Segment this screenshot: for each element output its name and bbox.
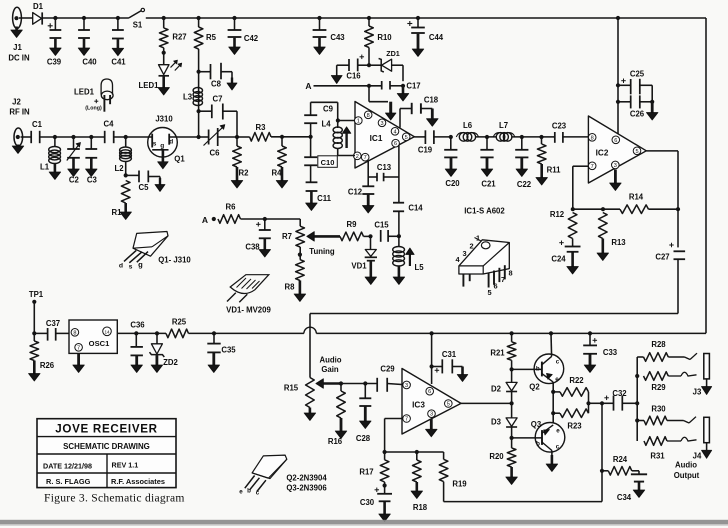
wire IC2 output (646, 150, 678, 152)
svg-text:C31: C31 (442, 350, 457, 359)
svg-text:e: e (239, 489, 243, 496)
pin 14 OSC1 (103, 327, 112, 336)
svg-text:(Long): (Long) (85, 106, 102, 112)
wire IC3 pin 6 supply (430, 331, 434, 335)
svg-text:C20: C20 (445, 179, 460, 188)
capacitor C10 (310, 137, 312, 157)
svg-text:L7: L7 (499, 121, 508, 130)
connector J3 headphone jack (704, 354, 710, 379)
capacitor C9 (309, 135, 313, 139)
capacitor C32 (602, 402, 614, 404)
svg-text:e: e (555, 376, 559, 383)
wire +V audio rail (117, 332, 166, 334)
ground arrow C25/C26 (651, 102, 654, 114)
svg-text:e: e (556, 428, 560, 435)
op-amp IC1 SA602 (355, 102, 414, 169)
svg-text:C41: C41 (111, 58, 126, 67)
capacitor C12 (367, 161, 369, 187)
svg-text:8: 8 (73, 330, 76, 336)
capacitor C4 (104, 131, 106, 143)
capacitor C5 (126, 174, 139, 176)
capacitor C11 (310, 165, 312, 182)
svg-text:5: 5 (635, 149, 638, 155)
svg-text:R23: R23 (567, 422, 582, 431)
svg-text:Audio: Audio (319, 356, 341, 365)
resistor R21 (510, 331, 514, 335)
scan artifact bar (0, 520, 728, 525)
svg-text:R26: R26 (40, 361, 55, 370)
svg-text:C17: C17 (406, 82, 420, 91)
svg-text:7: 7 (405, 417, 408, 423)
wire R6 to R7 (241, 218, 301, 220)
svg-text:C29: C29 (380, 365, 395, 374)
svg-text:R12: R12 (550, 210, 565, 219)
resistor R4 (281, 137, 283, 146)
capacitor C17 (381, 81, 383, 90)
inductor L3 (193, 88, 202, 94)
transistor Q2 2N3904 (534, 354, 564, 384)
inductor L2 (124, 135, 128, 139)
capacitor C1 (21, 136, 32, 138)
svg-text:Q2-2N3904: Q2-2N3904 (286, 474, 327, 483)
wire audio signal line (310, 313, 678, 315)
wire IC1 output (414, 136, 425, 138)
svg-text:b: b (247, 488, 251, 495)
svg-text:Q3: Q3 (531, 420, 542, 429)
pin 8 IC1 (364, 111, 372, 119)
inductor L4 (337, 121, 339, 129)
svg-text:Tuning: Tuning (309, 247, 335, 256)
wiper arrow R15 (322, 382, 341, 385)
pin 6 IC2 (612, 136, 620, 144)
svg-text:3: 3 (430, 412, 433, 418)
svg-text:C26: C26 (630, 110, 645, 119)
wire Q2/Q3 emitter link (552, 392, 554, 423)
svg-text:C40: C40 (82, 58, 97, 67)
resistor R23 (560, 409, 589, 418)
svg-text:b: b (536, 441, 540, 448)
resistor R20 (507, 448, 516, 467)
pin 7 IC2 (588, 162, 596, 170)
svg-text:C6: C6 (210, 149, 221, 158)
svg-text:Output: Output (674, 471, 700, 480)
svg-text:C34: C34 (617, 493, 632, 502)
node V+ junction under R10 (367, 63, 371, 67)
pin 5 IC3 (445, 400, 453, 408)
capacitor C29 (376, 378, 378, 392)
resistor R13 (599, 213, 608, 239)
wire Q2 collector (549, 331, 553, 335)
svg-text:J310: J310 (155, 115, 173, 124)
variable capacitor C2 (71, 135, 75, 139)
resistor R29 (644, 372, 669, 381)
svg-text:6: 6 (614, 138, 617, 144)
svg-text:R5: R5 (206, 33, 217, 42)
svg-text:1: 1 (357, 119, 360, 125)
capacitor C18 (399, 109, 401, 128)
svg-text:R4: R4 (272, 169, 283, 178)
svg-text:Q3-2N3906: Q3-2N3906 (286, 484, 327, 493)
pin 8 OSC1 (71, 329, 79, 337)
pin 8 IC2 (588, 134, 596, 142)
capacitor C7 (197, 109, 201, 113)
svg-text:R8: R8 (285, 283, 296, 292)
transistor Q1 J310 (148, 128, 178, 158)
svg-text:J2: J2 (12, 98, 21, 107)
resistor R1 (121, 181, 130, 204)
resistor R6 (218, 215, 241, 224)
resistor R8 (296, 260, 305, 281)
svg-text:R25: R25 (172, 318, 187, 327)
wire feedback to output node (444, 501, 602, 503)
svg-text:R14: R14 (629, 193, 644, 202)
wire Q2 emitter to R22 (552, 382, 554, 392)
svg-text:R21: R21 (490, 349, 505, 358)
svg-text:Q2: Q2 (529, 383, 540, 392)
svg-text:REV 1.1: REV 1.1 (112, 461, 139, 470)
op-amp IC2 (588, 116, 646, 183)
zener diode ZD1 (369, 64, 381, 66)
wire right rail down (705, 18, 707, 333)
capacitor C44 (416, 16, 420, 20)
capacitor C40 (82, 16, 86, 20)
svg-text:3: 3 (380, 121, 383, 127)
wire top rail main segment (146, 17, 706, 19)
resistor R24 (602, 470, 608, 472)
svg-text:g: g (138, 260, 143, 269)
capacitor C39 (53, 16, 57, 20)
svg-text:L4: L4 (321, 120, 331, 129)
svg-text:R18: R18 (413, 503, 428, 512)
svg-text:R31: R31 (650, 452, 665, 461)
svg-text:2: 2 (469, 242, 473, 251)
svg-text:1: 1 (476, 234, 480, 243)
svg-text:IC1-S A602: IC1-S A602 (464, 207, 505, 216)
svg-text:ZD1: ZD1 (386, 49, 400, 58)
svg-text:C8: C8 (211, 80, 222, 89)
capacitor C43 (317, 16, 321, 20)
capacitor C14 (398, 145, 400, 203)
connector J1 DC IN jack (13, 7, 22, 28)
svg-text:5: 5 (447, 402, 450, 408)
svg-text:Gain: Gain (321, 365, 339, 374)
svg-text:C4: C4 (104, 120, 115, 129)
svg-text:C2: C2 (69, 176, 80, 185)
LED LED1 symbol (163, 53, 165, 65)
capacitor C28 (363, 381, 367, 385)
pin 1 IC1 (355, 117, 363, 125)
svg-text:A: A (305, 81, 311, 91)
inductor L5 (398, 236, 400, 247)
svg-text:L1: L1 (40, 163, 50, 172)
svg-text:L2: L2 (114, 164, 124, 173)
svg-text:R24: R24 (613, 455, 628, 464)
svg-text:s: s (129, 264, 133, 271)
svg-text:d: d (169, 138, 173, 145)
svg-text:c: c (556, 359, 560, 366)
transistor Q3 2N3906 (535, 423, 565, 453)
diode D1 (33, 13, 42, 25)
svg-text:C13: C13 (377, 163, 392, 172)
svg-text:C23: C23 (552, 122, 567, 131)
inductor L1 (53, 135, 57, 139)
ground arrow IC2 pin 3 (614, 170, 617, 185)
svg-text:TP1: TP1 (29, 290, 44, 299)
svg-text:C39: C39 (47, 58, 62, 67)
inductor L7 (496, 133, 505, 142)
svg-text:8: 8 (367, 113, 370, 119)
pin 6 IC3 (426, 387, 434, 395)
svg-text:R20: R20 (489, 452, 504, 461)
capacitor C31 (430, 364, 434, 368)
svg-text:R11: R11 (547, 166, 562, 175)
wire J1 to D1 (19, 17, 33, 19)
pin 3 IC3 (403, 381, 411, 389)
resistor R28 (637, 356, 643, 358)
svg-text:6: 6 (493, 282, 497, 291)
svg-text:Audio: Audio (675, 461, 697, 470)
svg-text:8: 8 (508, 269, 512, 278)
pin 4 IC1 (391, 128, 399, 136)
svg-text:C27: C27 (655, 253, 669, 262)
svg-text:R1: R1 (112, 208, 123, 217)
resistor R9 (340, 232, 364, 241)
svg-text:J3: J3 (693, 388, 702, 397)
svg-text:C9: C9 (323, 105, 334, 114)
wire to IC1 pin 1 (337, 102, 339, 120)
svg-text:c: c (256, 490, 260, 497)
svg-text:C36: C36 (130, 321, 145, 330)
svg-text:R29: R29 (651, 383, 666, 392)
svg-text:LED1: LED1 (74, 88, 95, 97)
svg-text:R7: R7 (282, 232, 292, 241)
capacitor C20 (449, 135, 453, 139)
svg-text:Q1- J310: Q1- J310 (158, 256, 191, 265)
svg-text:VD1: VD1 (351, 262, 367, 271)
svg-text:14: 14 (104, 329, 110, 334)
svg-text:IC3: IC3 (412, 401, 425, 410)
pin 6 IC1 (392, 139, 400, 147)
inductor L6 (459, 133, 468, 142)
svg-text:c: c (556, 444, 560, 451)
svg-text:DC IN: DC IN (8, 54, 30, 63)
capacitor C22 (520, 135, 524, 139)
resistor R3 (237, 136, 250, 138)
svg-text:C10: C10 (321, 158, 335, 167)
wire top rail left segment (42, 17, 129, 19)
svg-text:6: 6 (394, 141, 397, 147)
svg-text:6: 6 (428, 389, 431, 395)
svg-text:L6: L6 (463, 121, 473, 130)
IC1 DIP package drawing (459, 240, 509, 274)
svg-text:R30: R30 (651, 405, 666, 414)
resistor R17 (384, 452, 386, 460)
svg-text:C24: C24 (551, 255, 566, 264)
pin 3 IC1 (378, 119, 386, 127)
capacitor C24 (559, 242, 564, 244)
svg-text:2: 2 (356, 154, 359, 160)
svg-text:C5: C5 (139, 183, 150, 192)
svg-text:C43: C43 (330, 33, 345, 42)
op-amp IC3 (402, 369, 461, 435)
svg-text:C42: C42 (244, 34, 259, 43)
svg-text:C21: C21 (481, 180, 496, 189)
switch S1 (129, 11, 141, 18)
svg-text:5: 5 (405, 135, 408, 141)
svg-text:3: 3 (614, 163, 617, 169)
svg-text:D1: D1 (33, 2, 44, 11)
connector J2 RF IN jack (14, 128, 23, 146)
svg-text:C14: C14 (408, 204, 423, 213)
svg-text:C35: C35 (221, 346, 236, 355)
resistor R31 (644, 437, 667, 446)
svg-text:ZD2: ZD2 (163, 358, 178, 367)
pin 7 OSC1 (75, 344, 83, 352)
svg-text:R17: R17 (359, 468, 373, 477)
tuning arrow L4 (345, 132, 347, 148)
pin 7 IC1 (361, 153, 369, 161)
svg-text:7: 7 (591, 164, 594, 170)
pin 5 IC2 (633, 147, 641, 155)
capacitor C35 (212, 331, 216, 335)
potentiometer R7 (299, 219, 301, 226)
capacitor C38 (264, 219, 266, 230)
svg-text:d: d (119, 263, 123, 270)
svg-text:IC1: IC1 (370, 134, 383, 143)
svg-text:R13: R13 (611, 238, 626, 247)
capacitor C13 (368, 176, 377, 178)
wire RF line segment 1 (40, 136, 105, 138)
svg-text:g: g (160, 143, 164, 150)
oscillator OSC1 (69, 320, 117, 353)
resistor R5 (197, 16, 201, 20)
svg-text:3: 3 (405, 383, 408, 389)
capacitor C25 (616, 16, 620, 20)
svg-text:R2: R2 (239, 169, 250, 178)
svg-text:A: A (202, 215, 208, 225)
capacitor C41 (116, 16, 120, 20)
svg-text:C16: C16 (346, 72, 361, 81)
capacitor C19 (424, 130, 426, 144)
potentiometer R15 audio gain (306, 378, 315, 408)
svg-text:C1: C1 (32, 120, 43, 129)
ground arrow IC3 pin 4 (430, 419, 433, 430)
svg-text:S1: S1 (133, 21, 143, 30)
resistor R19 (443, 452, 445, 459)
resistor R18 (416, 452, 418, 460)
svg-text:3: 3 (462, 249, 466, 258)
svg-text:L5: L5 (414, 263, 424, 272)
svg-text:R27: R27 (172, 33, 186, 42)
wiper arrow R7 (313, 235, 340, 238)
tuning arrow L5 (409, 254, 411, 267)
svg-text:8: 8 (591, 135, 594, 141)
svg-text:RF IN: RF IN (9, 108, 30, 117)
svg-text:IC2: IC2 (596, 149, 609, 158)
wire wiper to C29 (341, 383, 377, 385)
node C6/C7/R2 junction (235, 135, 239, 139)
Q1 J310 package drawing (133, 232, 168, 257)
svg-text:SCHEMATIC DRAWING: SCHEMATIC DRAWING (63, 442, 150, 451)
svg-text:R9: R9 (347, 220, 358, 229)
capacitor C36 (134, 331, 138, 335)
node R3/R4 junction (271, 136, 311, 138)
svg-text:C15: C15 (374, 221, 389, 230)
capacitor C21 (485, 135, 489, 139)
resistor R12 (568, 213, 577, 239)
svg-text:C30: C30 (360, 498, 375, 507)
zener diode ZD2 (155, 331, 159, 335)
svg-text:Q1: Q1 (174, 155, 185, 164)
capacitor C15 (380, 230, 382, 242)
wire output resistor bus (636, 357, 638, 441)
capacitor C3 (89, 135, 93, 139)
pin 4 IC3 (428, 410, 436, 418)
svg-text:C18: C18 (424, 96, 439, 105)
wire V+ to IC1 pin 8 (368, 86, 370, 102)
connector J4 headphone jack (704, 417, 710, 442)
node R22/R23 output join (588, 392, 590, 413)
svg-text:C11: C11 (317, 194, 332, 203)
capacitor C16 (358, 64, 369, 66)
pin 3 IC2 (612, 161, 620, 169)
node R9/VD1/C15 junction (368, 234, 372, 238)
svg-text:C38: C38 (245, 243, 260, 252)
wire feedback row (385, 451, 444, 453)
svg-text:C22: C22 (517, 180, 532, 189)
variable capacitor C6 (199, 136, 209, 138)
capacitor C37 (34, 332, 47, 334)
resistor R27 (162, 16, 166, 20)
resistor R22 (560, 388, 589, 397)
svg-text:DATE 12/21/98: DATE 12/21/98 (43, 461, 92, 470)
wire R5 bottom vertical (198, 49, 200, 137)
pin 2 IC1 (354, 152, 362, 160)
svg-text:C12: C12 (348, 188, 363, 197)
svg-text:J1: J1 (13, 43, 22, 52)
LED1 package drawing (101, 79, 112, 95)
svg-text:C32: C32 (612, 389, 627, 398)
capacitor C42 (232, 16, 236, 20)
resistor R10 (367, 16, 371, 20)
svg-text:R6: R6 (226, 203, 237, 212)
svg-text:R. S. FLAGG: R. S. FLAGG (46, 477, 91, 486)
svg-text:R19: R19 (452, 480, 467, 489)
svg-text:C28: C28 (356, 434, 371, 443)
resistor R30 (637, 420, 644, 422)
resistor R14 (573, 208, 620, 210)
svg-text:C44: C44 (429, 33, 444, 42)
svg-text:s: s (153, 140, 157, 147)
svg-text:R10: R10 (377, 33, 392, 42)
Q2 Q3 package drawing (252, 455, 287, 479)
resistor R26 (33, 333, 35, 341)
wire IC3 pin 7 to feedback (385, 418, 402, 420)
diode D3 (511, 403, 513, 418)
svg-text:R28: R28 (651, 340, 666, 349)
ground arrow OSC1 pin 7 (77, 353, 80, 366)
wire IC3 output (461, 402, 512, 404)
svg-text:R22: R22 (569, 376, 584, 385)
svg-text:OSC1: OSC1 (89, 339, 110, 348)
svg-text:LED1: LED1 (139, 81, 160, 90)
wire C4 to Q1 (114, 136, 149, 138)
svg-text:Figure 3. Schematic diagram: Figure 3. Schematic diagram (44, 492, 185, 505)
svg-text:7: 7 (364, 155, 367, 161)
resistor R11 (539, 135, 543, 139)
node C14/C15/L5 junction (397, 234, 401, 238)
title block (37, 419, 176, 488)
